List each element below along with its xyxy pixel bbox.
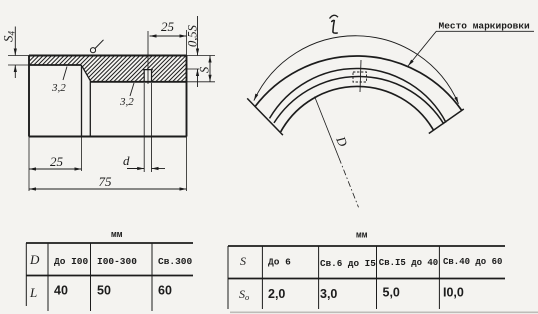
bore step edge 2 <box>89 81 91 136</box>
svg-text:I0,0: I0,0 <box>443 286 464 300</box>
extension of step edge down to 25-dim <box>81 137 83 172</box>
bore line: thin-wall inner surface <box>29 64 82 66</box>
roughness 3,2 (left) with leader <box>63 67 67 81</box>
S4 extension lines at left <box>8 55 29 57</box>
svg-text:3,0: 3,0 <box>320 287 337 301</box>
svg-text:Место маркировки: Место маркировки <box>439 21 531 32</box>
svg-text:So: So <box>239 287 249 302</box>
svg-text:мм: мм <box>111 229 123 240</box>
bore chamfer (conical transition) <box>82 66 91 81</box>
svg-text:40: 40 <box>54 284 68 298</box>
elbow left end face <box>247 98 283 135</box>
svg-text:5,0: 5,0 <box>383 286 400 300</box>
svg-text:L: L <box>29 285 37 300</box>
svg-text:60: 60 <box>158 284 172 298</box>
marking place dashed box on elbow <box>353 72 367 82</box>
svg-text:3,2: 3,2 <box>51 82 66 94</box>
svg-text:До 6: До 6 <box>268 257 291 268</box>
dimension S (wall thickness) <box>187 55 216 57</box>
svg-text:Св.300: Св.300 <box>158 256 193 267</box>
svg-text:D: D <box>29 252 40 267</box>
bore step edge 1 <box>81 65 83 137</box>
svg-text:Св.6 до I5: Св.6 до I5 <box>320 258 376 269</box>
bore line: thick-wall inner surface <box>90 81 186 83</box>
svg-text:0,5S: 0,5S <box>186 24 200 47</box>
elbow inner surface arc <box>281 86 434 131</box>
svg-text:S: S <box>240 254 246 268</box>
part outline: left end face <box>28 56 30 137</box>
elbow middle arc 1 <box>270 69 447 123</box>
svg-text:25: 25 <box>50 154 64 169</box>
arc-length dimension arc for L <box>254 36 459 104</box>
dimension 25 (top, hole center to end face) <box>150 35 187 37</box>
right table borders <box>228 245 505 247</box>
svg-text:S: S <box>198 66 212 73</box>
svg-text:2,0: 2,0 <box>268 287 285 301</box>
left table borders <box>26 242 193 244</box>
elbow middle arc 2 <box>274 76 444 124</box>
radial centerline through marking box <box>360 60 361 92</box>
hole edge extension lines for d-dim <box>143 83 145 172</box>
extension line: left edge down to 75-dim <box>28 137 30 192</box>
surface finish symbol (circle with slash) on top surface <box>90 48 95 53</box>
svg-text:Св.40 до 60: Св.40 до 60 <box>443 257 502 267</box>
svg-text:75: 75 <box>99 174 113 189</box>
svg-text:D: D <box>333 133 351 149</box>
elbow right end face <box>429 109 464 134</box>
dimension S4 (wall thickness of machined end) <box>14 27 16 56</box>
part outline: right end face <box>186 56 188 137</box>
dimension 0.5S (chamfer) <box>187 68 200 70</box>
hole centerline <box>147 31 149 84</box>
svg-text:мм: мм <box>356 230 368 241</box>
leader: Место маркировки <box>408 31 437 66</box>
svg-text:Св.I5 до 40: Св.I5 до 40 <box>379 258 438 268</box>
roughness 3,2 (right) with leader <box>130 83 134 96</box>
elbow outer surface arc <box>255 56 462 110</box>
svg-text:d: d <box>123 153 130 168</box>
svg-text:S4: S4 <box>1 31 17 43</box>
D radial line (dash-dot) <box>315 97 339 159</box>
svg-text:До I00: До I00 <box>54 256 89 267</box>
svg-text:25: 25 <box>161 19 175 34</box>
dimension 75 (overall length) <box>29 188 187 190</box>
part axis / bottom contour <box>29 135 187 137</box>
L with arc (arc length symbol) <box>332 20 338 33</box>
dimension 25 (bottom left) <box>29 168 82 170</box>
svg-text:50: 50 <box>97 284 111 298</box>
part outline: top surface <box>29 54 187 56</box>
dimension d (hole diameter) <box>127 168 144 170</box>
svg-text:I00-300: I00-300 <box>97 256 137 267</box>
svg-text:3,2: 3,2 <box>119 96 134 108</box>
hole d: outline <box>143 70 153 82</box>
extension line: right edge up to 25-dim and down to 75-dim <box>186 30 188 56</box>
